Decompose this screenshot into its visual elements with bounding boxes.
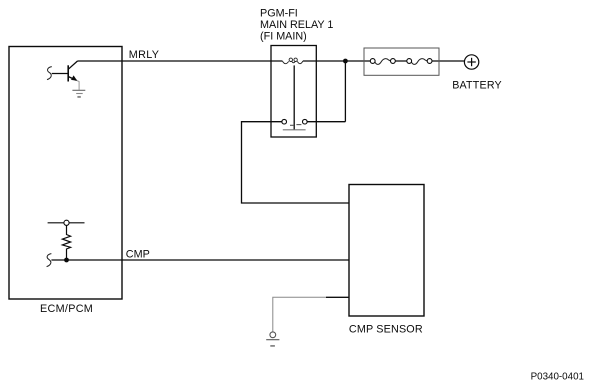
wire sensor ground: [273, 297, 326, 332]
node junction dot: [343, 59, 348, 64]
transistor Q1: [52, 61, 79, 90]
CMP wire break squiggle: [47, 254, 52, 267]
battery terminal: [464, 55, 478, 69]
fuse box: [364, 48, 439, 75]
transistor Q1 base break squiggle: [47, 67, 52, 80]
svg-text:(FI MAIN): (FI MAIN): [260, 31, 307, 43]
wire MRLY: collector to relay coil: [78, 60, 283, 62]
resistor R1 top lead: [48, 222, 85, 224]
chassis ground (sensor): [266, 332, 279, 346]
svg-text:P0340-0401: P0340-0401: [531, 371, 584, 382]
CMP SENSOR box: [349, 185, 424, 317]
svg-text:CMP: CMP: [126, 249, 150, 261]
relay coil: [282, 58, 303, 64]
wire junction vertical: [344, 61, 346, 122]
wire coil to fuse: [303, 60, 373, 62]
svg-text:ECM/PCM: ECM/PCM: [40, 303, 93, 315]
fuse F1: [375, 59, 391, 65]
resistor terminal circle: [64, 220, 69, 225]
relay contact circles: [282, 119, 287, 124]
wire fuse to battery: [430, 60, 465, 62]
relay contact dashes: [290, 124, 294, 126]
ground (transistor emitter): [72, 90, 85, 97]
svg-text:BATTERY: BATTERY: [452, 79, 502, 91]
svg-text:MAIN RELAY 1: MAIN RELAY 1: [260, 19, 333, 31]
svg-text:PGM-FI: PGM-FI: [260, 8, 298, 20]
wire between fuses: [393, 60, 409, 62]
relay U1 box: [271, 46, 316, 138]
svg-text:CMP SENSOR: CMP SENSOR: [349, 324, 423, 336]
wire CMP: [51, 259, 349, 261]
relay armature link: [293, 65, 295, 129]
fuse F2: [411, 59, 427, 65]
wire relay right contact: [307, 121, 345, 123]
node junction dot CMP: [64, 258, 69, 263]
wire relay left contact to sensor: [242, 122, 350, 203]
resistor R1: [62, 225, 70, 260]
svg-text:MRLY: MRLY: [129, 49, 159, 61]
ECM/PCM box: [9, 47, 122, 300]
relay armature bar: [283, 129, 306, 131]
